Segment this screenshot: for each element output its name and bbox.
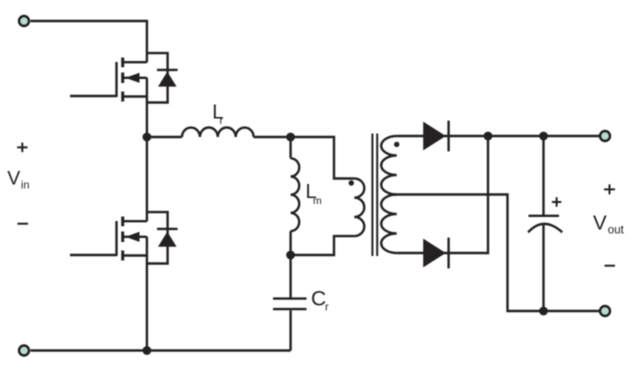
svg-text:r: r [325,302,329,314]
svg-text:in: in [21,180,30,192]
svg-text:r: r [220,115,224,127]
svg-text:m: m [313,195,322,207]
svg-text:V: V [7,168,20,190]
svg-text:out: out [608,225,625,237]
svg-text:V: V [593,212,607,235]
svg-text:C: C [311,287,326,310]
